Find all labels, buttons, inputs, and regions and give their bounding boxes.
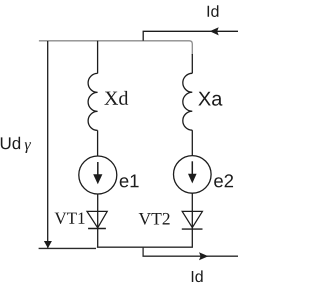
VT2 cathode bar (182, 228, 203, 230)
label Id (top) (208, 5, 219, 17)
Id input wire (top right) (143, 31, 238, 41)
arrowhead Id top (pointing left) (210, 27, 219, 35)
label e1 (120, 174, 139, 187)
label Ud (1, 137, 20, 149)
label Xd (104, 91, 128, 105)
label Xa (198, 92, 222, 106)
wire left branch top (97, 41, 99, 74)
label VT1 (55, 212, 85, 223)
wire Xa to e2 (191, 130, 193, 156)
arrow inside e2 (191, 161, 193, 175)
wire e2 to VT2 (191, 193, 193, 247)
inductor Xd (88, 73, 97, 130)
source e1 circle (79, 156, 117, 194)
label gamma (25, 142, 31, 153)
thyristor VT1 triangle (87, 211, 107, 227)
wire right branch top (191, 54, 193, 73)
inductor Xa (183, 73, 192, 130)
thyristor VT2 triangle (182, 211, 202, 227)
bottom rail VT1-VT2 (97, 246, 193, 248)
wire Xd to e1 (97, 130, 99, 156)
arrow inside e1 (97, 162, 99, 176)
VT1 cathode bar (88, 228, 106, 230)
label Id (bottom) (192, 270, 203, 282)
label e2 (214, 174, 233, 187)
bottom rail left stub (39, 247, 96, 249)
arrowhead Ud (pointing down) (44, 241, 52, 248)
label VT2 (139, 213, 170, 225)
top bus wire (39, 41, 192, 55)
Ud measurement arrow line (47, 41, 49, 248)
wire e1 to VT1 (97, 194, 99, 247)
source e2 circle (174, 156, 212, 194)
arrowhead Id bottom (pointing right) (199, 252, 208, 260)
output tap wire and Id output line (143, 247, 238, 256)
